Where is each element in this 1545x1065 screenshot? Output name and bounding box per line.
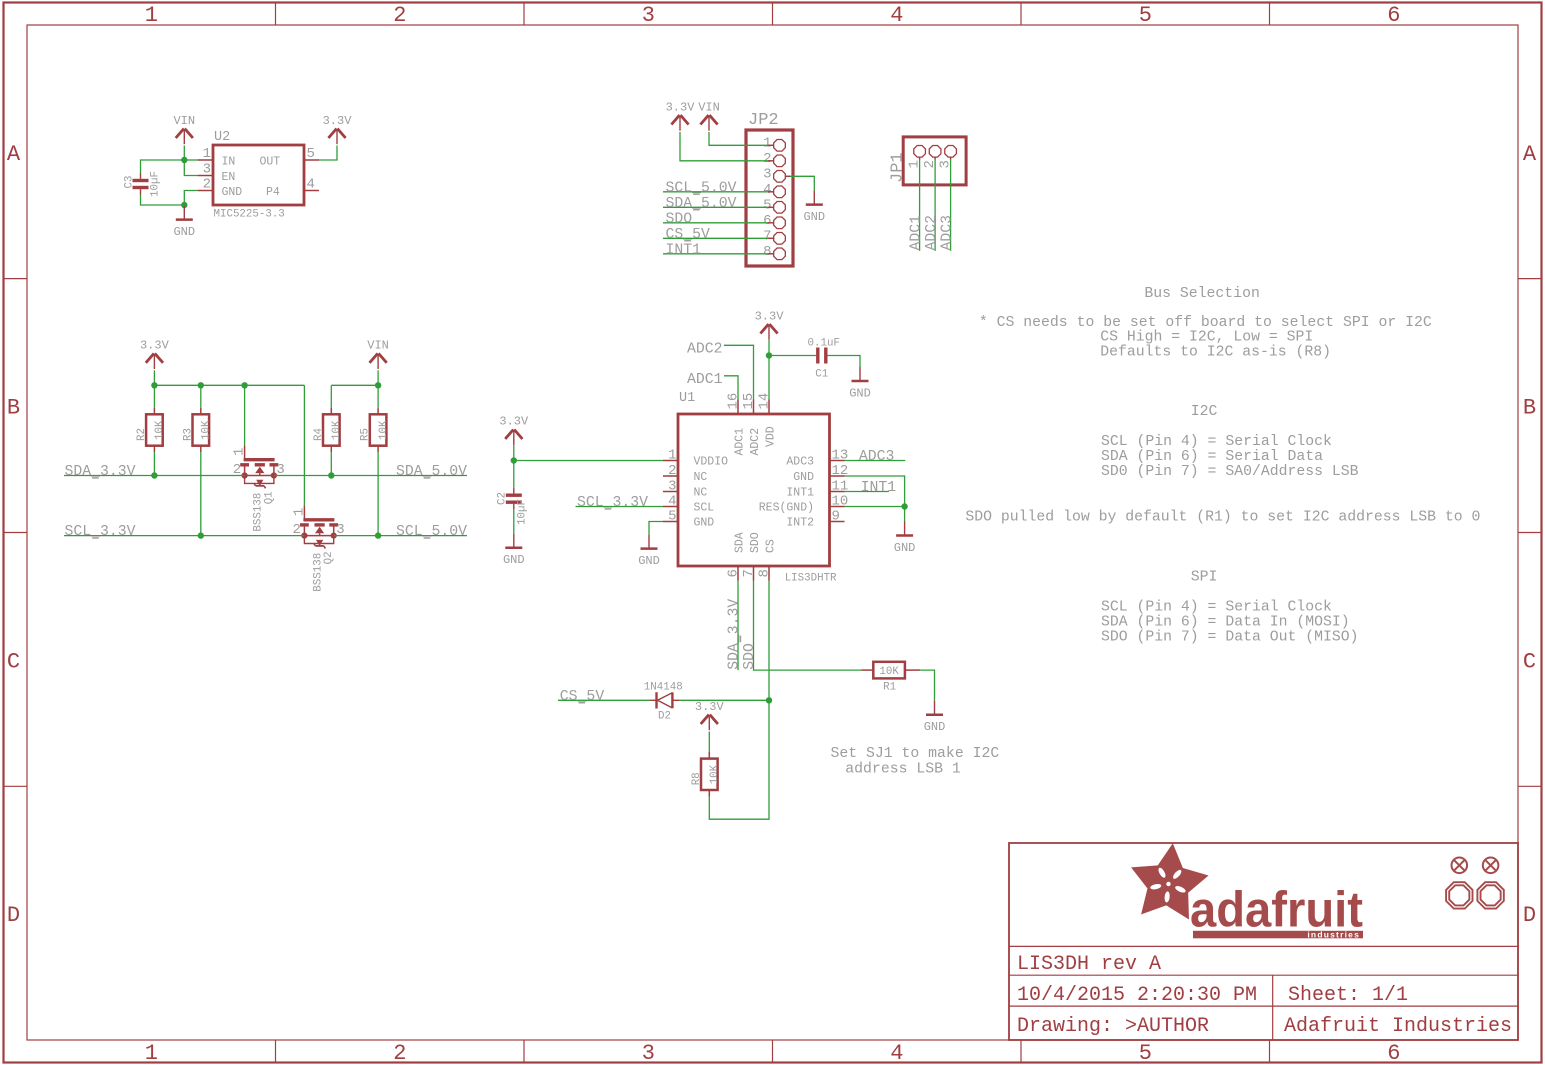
svg-text:VDDIO: VDDIO [694, 456, 729, 469]
svg-text:C1: C1 [815, 369, 828, 381]
svg-text:1: 1 [145, 1041, 158, 1065]
ground GND below U2 [183, 206, 185, 220]
svg-text:1: 1 [232, 448, 248, 456]
wire R5 to SCL_5.0V [377, 446, 379, 452]
svg-text:SCL (Pin 4) = Serial Clock: SCL (Pin 4) = Serial Clock [1101, 434, 1332, 450]
wire U2.OUT to 3.3V [319, 146, 337, 161]
wire C2 to ground [513, 509, 515, 534]
wire VIN to R5 [377, 385, 379, 408]
svg-text:CS High = I2C, Low = SPI: CS High = I2C, Low = SPI [1100, 330, 1313, 346]
wire 3.3V rail [153, 370, 155, 385]
power VIN at JP2 [700, 115, 708, 124]
svg-text:NC: NC [694, 487, 708, 500]
svg-text:D: D [7, 903, 20, 928]
svg-text:10K: 10K [154, 420, 166, 440]
svg-text:3.3V: 3.3V [755, 309, 785, 323]
JP2 pad 4 [774, 186, 786, 198]
svg-text:VDD: VDD [765, 426, 778, 447]
header JP1 [903, 137, 966, 185]
svg-text:1: 1 [291, 508, 307, 516]
U1 pin 14 VDD [768, 400, 770, 415]
ground GND at JP2 [813, 191, 815, 205]
svg-text:address LSB 1: address LSB 1 [845, 762, 961, 778]
svg-text:10K: 10K [879, 666, 899, 678]
accelerometer U1 LIS3DHTR [678, 414, 830, 566]
U1 pin 10 RES(GND) [830, 506, 845, 508]
svg-text:B: B [1523, 396, 1536, 421]
svg-text:CS: CS [765, 539, 778, 553]
net INT1 wire to JP2 pin 8 [663, 253, 768, 255]
svg-text:SCL_5.0V: SCL_5.0V [666, 180, 737, 196]
net CS wire from U1 pin8 [768, 581, 770, 701]
svg-text:C: C [7, 649, 20, 674]
svg-text:OUT: OUT [260, 156, 281, 169]
svg-text:10/4/2015 2:20:30 PM: 10/4/2015 2:20:30 PM [1017, 984, 1257, 1007]
svg-text:SDA_5.0V: SDA_5.0V [666, 196, 737, 212]
svg-text:R8: R8 [691, 772, 703, 785]
svg-text:industries: industries [1307, 930, 1360, 940]
node GND junction [181, 202, 187, 208]
svg-text:LIS3DH rev A: LIS3DH rev A [1017, 953, 1161, 976]
resistor R4 10K [323, 414, 340, 445]
JP2 pad 3 [774, 170, 786, 182]
node VDD junction [766, 352, 772, 358]
node rail junctions [151, 382, 157, 388]
net ADC3 wire from JP1 pin 3 [950, 157, 952, 160]
wire SDO to R1 [861, 669, 873, 671]
svg-text:EN: EN [222, 171, 236, 184]
wire junction to U2.EN [184, 160, 198, 176]
svg-text:GND: GND [894, 541, 916, 555]
svg-text:0.1uF: 0.1uF [808, 338, 840, 350]
svg-text:GND: GND [849, 387, 871, 401]
svg-text:C3: C3 [124, 176, 136, 189]
net ADC2 wire from JP1 pin 2 [934, 157, 936, 160]
wire rail to R4 [330, 385, 332, 408]
svg-text:Defaults to I2C as-is (R8): Defaults to I2C as-is (R8) [1100, 345, 1331, 361]
net ADC1 wire from JP1 pin 1 [919, 157, 921, 160]
svg-text:Adafruit Industries: Adafruit Industries [1284, 1015, 1512, 1038]
svg-text:SDA (Pin 6) = Data In (MOSI): SDA (Pin 6) = Data In (MOSI) [1101, 614, 1350, 630]
svg-text:1: 1 [203, 146, 211, 162]
net SDA_5.0V wire to JP2 pin 5 [663, 206, 768, 208]
svg-text:ADC2: ADC2 [687, 341, 723, 357]
U1 pin 16 ADC1 [737, 400, 739, 415]
svg-text:B: B [7, 396, 20, 421]
node C2 junction [511, 457, 517, 463]
resistor R1 10K [873, 662, 905, 679]
JP2 pad 2 [774, 155, 786, 167]
svg-text:4: 4 [307, 177, 315, 193]
wire D2 to CS node [679, 699, 769, 701]
svg-text:4: 4 [890, 3, 903, 28]
svg-text:3.3V: 3.3V [695, 700, 725, 714]
U1 pin 7 SDO [753, 566, 755, 581]
U1 pin 1 VDDIO [663, 460, 678, 462]
svg-text:GND: GND [803, 210, 825, 224]
svg-text:4: 4 [668, 494, 676, 510]
svg-text:GND: GND [173, 225, 195, 239]
voltage regulator U2 MIC5225-3.3 [213, 145, 304, 205]
svg-text:3.3V: 3.3V [499, 415, 529, 429]
wire R2 to SDA_3.3V [153, 446, 155, 452]
wire R3 to SCL_3.3V [200, 446, 202, 452]
svg-text:SDA_3.3V: SDA_3.3V [727, 599, 743, 670]
wire 3.3V to U1 pin14 [768, 340, 770, 400]
net SDA_3.3V wire [64, 475, 245, 477]
svg-text:SPI: SPI [1191, 569, 1218, 585]
wire R4 to SDA_5.0V [330, 446, 332, 452]
svg-text:ADC1: ADC1 [909, 215, 925, 251]
JP1 pad 1 [914, 145, 926, 157]
wire C3 top to VIN node [141, 160, 185, 173]
wire VIN to U2.IN [183, 146, 185, 161]
ground GND right of U1 [904, 522, 906, 536]
svg-text:NC: NC [694, 471, 708, 484]
wire Q1 gate to rail [244, 385, 246, 445]
svg-text:ADC3: ADC3 [859, 449, 895, 465]
svg-text:10µF: 10µF [517, 499, 529, 525]
svg-text:SCL: SCL [694, 502, 715, 515]
capacitor C1 0.1uF [816, 348, 819, 364]
ground GND below C2 [513, 534, 515, 548]
node SCL/R3 junction [198, 532, 204, 538]
net ADC3 wire from U1 pin13 [845, 460, 906, 462]
svg-text:3: 3 [763, 166, 771, 182]
svg-text:GND: GND [924, 720, 946, 734]
svg-text:ADC1: ADC1 [734, 428, 747, 456]
svg-text:5: 5 [763, 197, 771, 213]
wire 3.3V to U1 pin1 [513, 445, 515, 460]
svg-text:SDA (Pin 6) = Serial Data: SDA (Pin 6) = Serial Data [1101, 449, 1323, 465]
svg-text:5: 5 [1139, 1041, 1152, 1065]
svg-text:GND: GND [694, 517, 715, 530]
svg-text:1: 1 [145, 3, 158, 28]
svg-text:Q2: Q2 [323, 551, 335, 564]
power VIN [176, 129, 184, 138]
svg-text:A: A [7, 142, 21, 167]
power 3.3V at U2 output [328, 129, 336, 138]
resistor R5 10K [370, 414, 387, 445]
svg-text:5: 5 [668, 509, 676, 525]
svg-text:GND: GND [793, 471, 814, 484]
capacitor C2 10uF [506, 494, 522, 497]
U1 pin 5 GND [663, 521, 678, 523]
wire 3.3V to R3 [200, 385, 202, 408]
svg-text:7: 7 [741, 569, 757, 577]
svg-text:U2: U2 [214, 130, 230, 145]
wire VDD node to C1 [769, 355, 816, 357]
svg-text:Bus Selection: Bus Selection [1144, 286, 1259, 302]
wire R1 to ground [905, 669, 920, 671]
svg-text:VIN: VIN [173, 114, 195, 128]
resistor R2 10K [146, 414, 163, 445]
svg-text:SD0 (Pin 7) = SA0/Address LSB: SD0 (Pin 7) = SA0/Address LSB [1101, 464, 1359, 480]
svg-text:4: 4 [890, 1041, 903, 1065]
svg-text:SDO pulled low by default (R1): SDO pulled low by default (R1) to set I2… [965, 509, 1480, 525]
net SCL_3.3V wire to U1 pin4 [576, 506, 664, 508]
wire U1 pin5 GND to ground [649, 522, 663, 535]
net SDO wire to JP2 pin 6 [663, 222, 768, 224]
U1 pin 9 INT2 [830, 521, 845, 523]
svg-text:2: 2 [393, 1041, 406, 1065]
JP2 pad 7 [774, 232, 786, 244]
U1 pin 6 SDA [737, 566, 739, 581]
svg-text:ADC2: ADC2 [749, 428, 762, 456]
svg-text:6: 6 [726, 569, 742, 577]
U1 pin 8 CS [768, 566, 770, 581]
net SCL_5.0V wire to JP2 pin 4 [663, 191, 768, 193]
svg-text:INT1: INT1 [786, 487, 814, 500]
svg-text:JP2: JP2 [748, 111, 779, 130]
svg-text:SCL_3.3V: SCL_3.3V [577, 495, 648, 511]
svg-text:D2: D2 [658, 711, 671, 723]
svg-text:3: 3 [203, 162, 211, 178]
svg-text:VIN: VIN [698, 100, 720, 114]
svg-text:SCL (Pin 4) = Serial Clock: SCL (Pin 4) = Serial Clock [1101, 599, 1332, 615]
svg-text:SDO (Pin 7) = Data Out (MISO): SDO (Pin 7) = Data Out (MISO) [1101, 629, 1359, 645]
svg-text:2: 2 [668, 463, 676, 479]
ground GND right of C1 [859, 367, 861, 381]
wire U1 pin12 GND to node [845, 476, 905, 507]
wire C3 bottom to GND node [141, 195, 185, 206]
wire JP2 pin3 to ground [786, 175, 791, 177]
wire 3.3V to R8 [708, 732, 710, 753]
svg-text:10K: 10K [331, 420, 343, 440]
svg-text:VIN: VIN [367, 339, 389, 353]
svg-text:* CS needs to be set off board: * CS needs to be set off board to select… [979, 315, 1432, 331]
svg-text:4: 4 [763, 182, 771, 198]
svg-text:1N4148: 1N4148 [644, 682, 683, 694]
svg-text:GND: GND [222, 186, 243, 199]
svg-text:1: 1 [668, 448, 676, 464]
svg-text:Drawing: >AUTHOR: Drawing: >AUTHOR [1017, 1015, 1209, 1038]
net SCL_5.0V wire [334, 535, 467, 537]
svg-text:1: 1 [763, 135, 771, 151]
svg-text:SCL_3.3V: SCL_3.3V [65, 524, 136, 540]
U1 pin 12 GND [830, 475, 845, 477]
svg-text:INT1: INT1 [666, 242, 702, 258]
node SCL/R5 junction [375, 532, 381, 538]
svg-text:14: 14 [757, 393, 773, 410]
svg-text:MIC5225-3.3: MIC5225-3.3 [214, 209, 285, 221]
net SDA_5.0V wire [274, 475, 467, 477]
power 3.3V at level shifter [146, 353, 154, 362]
power 3.3V at U1 VDD [760, 324, 768, 333]
svg-text:R2: R2 [136, 428, 148, 441]
svg-text:GND: GND [503, 553, 525, 567]
svg-text:10µF: 10µF [150, 171, 162, 197]
wire U1 pin10 to node [845, 506, 905, 508]
wire 3.3V to R2 [153, 385, 155, 408]
transistor Q2 BSS138 [303, 518, 334, 521]
net CS_5V wire [558, 699, 650, 701]
wire R8 to CS net [708, 790, 710, 797]
svg-text:Sheet: 1/1: Sheet: 1/1 [1288, 984, 1408, 1007]
wire C1 to ground [828, 356, 861, 368]
JP2 pad 1 [774, 139, 786, 151]
ground GND at U1 pin5 [648, 535, 650, 549]
svg-text:SDO: SDO [742, 643, 758, 670]
U1 pin 11 INT1 [830, 491, 845, 493]
svg-text:C2: C2 [497, 492, 509, 505]
power VIN at level shifter [370, 353, 378, 362]
svg-text:R1: R1 [883, 682, 896, 694]
svg-text:R5: R5 [360, 428, 372, 441]
wire junction to C2 [513, 461, 515, 489]
svg-text:3.3V: 3.3V [666, 100, 696, 114]
svg-text:A: A [1523, 142, 1537, 167]
wire VIN rail [377, 370, 379, 385]
svg-text:8: 8 [757, 569, 773, 577]
svg-text:16: 16 [726, 393, 742, 410]
svg-text:INT2: INT2 [786, 517, 814, 530]
svg-text:SDA_5.0V: SDA_5.0V [396, 464, 467, 480]
svg-text:C: C [1523, 649, 1536, 674]
wire 3.3V to JP2 pin2 [680, 132, 768, 161]
svg-text:ADC2: ADC2 [924, 215, 940, 251]
svg-text:LIS3DHTR: LIS3DHTR [785, 573, 837, 585]
power 3.3V above R8 [701, 715, 709, 724]
node CS junction [766, 697, 772, 703]
svg-text:2: 2 [763, 151, 771, 167]
svg-text:5: 5 [1139, 3, 1152, 28]
diode D2 1N4148 [655, 692, 657, 708]
capacitor C3 10uF [133, 179, 149, 182]
svg-text:2: 2 [203, 177, 211, 193]
svg-text:7: 7 [763, 228, 771, 244]
svg-text:U1: U1 [679, 391, 695, 406]
svg-text:SDO: SDO [749, 532, 762, 553]
svg-text:R3: R3 [182, 428, 194, 441]
U1 pin 13 ADC3 [830, 460, 845, 462]
power 3.3V at U1 VDDIO [505, 430, 513, 439]
svg-text:3.3V: 3.3V [140, 339, 170, 353]
svg-text:Q1: Q1 [263, 491, 275, 504]
U1 pin 3 NC [663, 491, 678, 493]
net SDA_3.3V wire from U1 pin6 [737, 581, 739, 671]
wire U2.GND to ground [184, 191, 198, 206]
header JP2 [746, 130, 793, 266]
U1 pin 15 ADC2 [753, 400, 755, 415]
svg-text:ADC3: ADC3 [786, 456, 814, 469]
JP2 pad 8 [774, 248, 786, 260]
svg-text:3.3V: 3.3V [323, 114, 353, 128]
resistor R8 10K [701, 759, 718, 790]
node SDA/R4 junction [328, 472, 334, 478]
svg-text:3: 3 [642, 3, 655, 28]
svg-text:SDA: SDA [734, 532, 747, 553]
svg-text:IN: IN [222, 156, 236, 169]
transistor Q1 BSS138 [244, 458, 275, 461]
svg-text:3: 3 [668, 479, 676, 495]
JP1 pad 2 [929, 145, 941, 157]
svg-text:D: D [1523, 903, 1536, 928]
wire VIN to JP2 pin1 [709, 132, 768, 145]
power 3.3V at JP2 [671, 115, 679, 124]
svg-text:Set SJ1 to make I2C: Set SJ1 to make I2C [831, 746, 1000, 762]
svg-text:JP1: JP1 [889, 152, 908, 183]
JP2 pad 5 [774, 201, 786, 213]
svg-text:10K: 10K [378, 420, 390, 440]
node VIN junction [181, 157, 187, 163]
svg-text:6: 6 [1387, 1041, 1400, 1065]
svg-text:SDO: SDO [666, 211, 693, 227]
node SDA/R2 junction [151, 472, 157, 478]
svg-text:5: 5 [307, 146, 315, 162]
U1 pin 4 SCL [663, 506, 678, 508]
JP2 pad 6 [774, 217, 786, 229]
svg-text:ADC1: ADC1 [687, 372, 723, 388]
svg-text:GND: GND [638, 554, 660, 568]
svg-text:SDA_3.3V: SDA_3.3V [65, 464, 136, 480]
svg-text:SCL_5.0V: SCL_5.0V [396, 524, 467, 540]
svg-text:ADC3: ADC3 [940, 215, 956, 251]
svg-text:3: 3 [642, 1041, 655, 1065]
svg-text:6: 6 [763, 213, 771, 229]
svg-text:INT1: INT1 [861, 480, 897, 496]
JP1 pad 3 [945, 145, 957, 157]
svg-text:9: 9 [832, 509, 840, 525]
svg-text:RES(GND): RES(GND) [759, 502, 814, 515]
svg-text:I2C: I2C [1191, 404, 1218, 420]
svg-text:15: 15 [741, 393, 757, 410]
net SCL_3.3V wire [64, 535, 304, 537]
wire rail to Q2 gate [303, 385, 305, 505]
U1 pin 2 NC [663, 475, 678, 477]
resistor R3 10K [193, 414, 210, 445]
svg-text:2: 2 [393, 3, 406, 28]
svg-text:P4: P4 [266, 186, 280, 199]
wire node to ground [904, 507, 906, 522]
net SDO wire from U1 pin7 [754, 581, 862, 671]
svg-text:6: 6 [1387, 3, 1400, 28]
net INT1 wire from U1 pin11 [845, 491, 889, 493]
svg-text:10K: 10K [709, 764, 721, 784]
svg-text:10K: 10K [201, 420, 213, 440]
svg-text:8: 8 [763, 244, 771, 260]
node GND junction right of U1 [901, 503, 907, 509]
ground GND below R1 [934, 701, 936, 715]
svg-text:R4: R4 [313, 428, 325, 441]
net CS_5V wire to JP2 pin 7 [663, 237, 768, 239]
